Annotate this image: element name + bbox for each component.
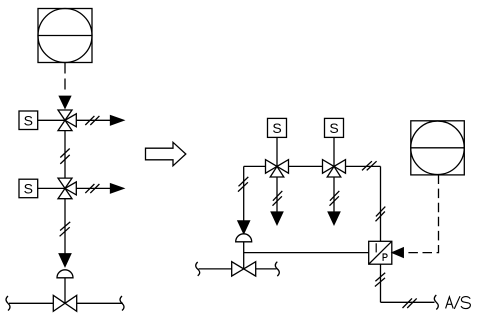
instrument bubble RI1 (circle in square, top right) [411,121,465,175]
pipe break (left of CV1) [6,296,10,311]
control valve CV1 (bowtie) [53,295,76,311]
wire (dashed signal from LI1 down to valve V1) [64,63,66,95]
wire (actuator A1 to valve CV1) [64,278,66,304]
wire (V1 to V2 with hatch marks) [60,131,69,179]
wire (down to I/P with hatch marks) [376,166,386,241]
solenoid box S1 [19,111,38,130]
pipe break (right of CV2) [275,262,279,276]
solenoid box S2 [19,179,38,198]
3-way valve V1 [58,110,76,131]
solid arrowhead into actuator A2 [238,221,250,234]
solid arrowhead (V3 vent) [271,212,283,225]
solid arrowhead (V2 output to right) [111,184,124,193]
wire (process pipe through valve CV1) [9,302,123,304]
3-way valve V3 [266,160,289,177]
wire (S2 box to valve V2) [38,187,65,189]
wire (main pneumatic header with corner, hatch marks after V4) [244,161,381,170]
pipe break (right of CV1) [120,296,124,311]
wire (valve V1 output, pneumatic hatch marks) [76,116,110,125]
wire (I/P output down with hatch marks) [375,264,385,302]
wire (V4 vent down with hatch marks) [330,177,340,212]
svg-text:S: S [24,181,33,197]
3-way valve V4 [323,160,346,177]
wire (dashed signal from RI1 to I/P) [403,175,438,253]
wire (V2 down, pneumatic hatch marks) [60,199,71,254]
solid arrowhead into I/P [392,248,403,257]
pipe break (left of CV2) [196,262,200,276]
diaphragm actuator A2 [236,234,252,242]
wire (V3 vent down with hatch marks) [273,177,283,212]
solid arrowhead (V1 output to right) [111,116,124,125]
I/P converter U1 [369,241,392,264]
diaphragm actuator A1 [57,270,73,278]
wire (process pipe through valve CV2) [199,268,277,270]
pipe break (air supply) [434,295,438,310]
solid arrowhead into actuator A1 [59,254,71,266]
solid arrowhead (V4 vent) [328,212,340,225]
block arrow (transition symbol) [146,142,186,166]
control valve CV2 (bowtie) [232,262,256,276]
solid arrowhead into valve V1 [59,96,70,108]
wire (S4 to valve V4) [333,137,335,166]
solenoid box S4 [325,118,344,137]
wire (actuator A2 to valve CV2) [243,242,245,269]
wire (tap from A2 stem to I/P converter) [244,252,369,254]
instrument bubble LI1 (circle in square, top left) [38,9,92,63]
svg-text:S: S [272,120,281,136]
wire (valve V2 output, pneumatic hatch marks) [76,184,110,193]
svg-text:S: S [24,112,33,128]
svg-text:S: S [329,120,338,136]
wire (air supply line with hatch marks) [381,298,435,308]
wire (S3 to valve V3) [276,137,278,166]
wire (header corner down to actuator A2, hatch marks) [238,166,248,221]
label A/S (air supply) [446,296,471,309]
wire (S1 box to valve V1) [38,119,65,121]
3-way valve V2 [58,178,76,199]
solenoid box S3 [268,118,287,137]
